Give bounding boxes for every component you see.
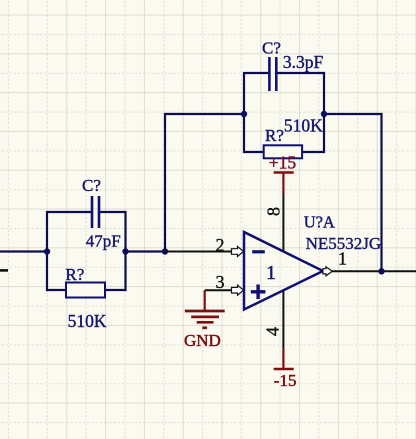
power port -15 stem: [282, 348, 284, 369]
wire feedback resistor right lead: [302, 114, 324, 152]
svg-text:4: 4: [263, 327, 283, 336]
resistor R2 510K body (feedback): [264, 145, 302, 158]
svg-text:C?: C?: [82, 176, 101, 195]
power port -15 bar: [274, 368, 294, 371]
capacitor C? 3.3pF plates: [268, 57, 271, 91]
node B junction dot right of left network: [122, 248, 128, 254]
svg-text:R?: R?: [265, 126, 284, 145]
ground GND bars: [185, 310, 225, 313]
pin 3 input arrow: [232, 285, 244, 295]
wire feedback cap left lead: [244, 73, 269, 114]
wire stub at left edge: [0, 269, 8, 272]
wire left network cap right lead: [99, 212, 126, 252]
node E junction dot feedback left: [241, 111, 247, 117]
svg-text:3.3pF: 3.3pF: [283, 52, 324, 72]
power port +15 bar: [274, 171, 294, 174]
pin 2 input arrow: [232, 247, 244, 257]
pin 1 output arrow: [323, 267, 332, 276]
svg-text:U?A: U?A: [304, 212, 335, 231]
node A junction dot left: [44, 248, 50, 254]
wire feedback resistor left lead: [244, 114, 264, 152]
svg-text:GND: GND: [184, 331, 221, 350]
svg-text:1: 1: [266, 262, 276, 284]
svg-text:-15: -15: [274, 371, 297, 390]
svg-text:+15: +15: [269, 152, 297, 172]
svg-text:R?: R?: [65, 265, 84, 284]
wire output net: [332, 270, 416, 272]
svg-text:8: 8: [263, 207, 283, 216]
node C junction dot feedback tap: [162, 248, 168, 254]
wire from node B to feedback node: [126, 250, 166, 252]
svg-text:510K: 510K: [68, 311, 107, 331]
capacitor C? 47pF plates: [91, 196, 94, 228]
op-amp minus input marker: [252, 250, 265, 253]
svg-text:3: 3: [216, 272, 225, 292]
wire left network left riser: [47, 212, 92, 252]
pin 4 lead: [282, 291, 284, 349]
wire pin 3 lead: [205, 289, 243, 291]
wire left network resistor left lead: [47, 252, 66, 291]
svg-text:1: 1: [338, 249, 347, 269]
wire feedback top right run: [324, 114, 382, 271]
wire input net from left edge to node A: [0, 250, 47, 252]
svg-text:2: 2: [216, 235, 225, 255]
svg-text:C?: C?: [262, 38, 281, 57]
resistor R1 510K body (left): [66, 283, 105, 298]
node F junction dot feedback right: [321, 111, 327, 117]
pin 8 lead: [282, 194, 284, 252]
svg-text:47pF: 47pF: [86, 231, 121, 250]
svg-text:510K: 510K: [284, 116, 323, 136]
ground GND power port stem: [204, 290, 206, 311]
wire pin 2 lead: [165, 251, 243, 253]
wire feedback left riser: [165, 114, 244, 252]
wire left network resistor right lead: [105, 252, 126, 291]
op-amp plus input marker: [251, 290, 266, 293]
op-amp U1 triangle body: [244, 232, 323, 310]
node D output junction dot: [378, 268, 384, 274]
wire feedback cap right lead: [276, 73, 324, 114]
power port +15 stem: [282, 173, 284, 194]
